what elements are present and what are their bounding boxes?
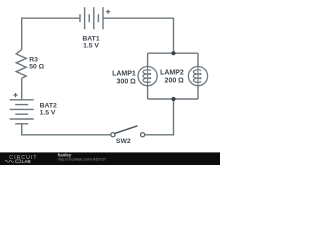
footer banner — [0, 152, 220, 165]
switch SW2 — [111, 126, 145, 137]
lamp LAMP1 — [138, 67, 157, 86]
wire lamp1 branch bottom — [147, 86, 149, 99]
wire bottom-right: switch to lamp bottom node — [145, 99, 174, 135]
CircuitLab logo waveform — [5, 161, 14, 163]
battery BAT1 — [80, 7, 103, 29]
svg-text:300 Ω: 300 Ω — [117, 78, 137, 85]
svg-text:LAMP2: LAMP2 — [160, 70, 184, 77]
svg-text:200 Ω: 200 Ω — [165, 77, 185, 84]
wire left rail: R3 bottom to BAT2 top — [21, 78, 23, 100]
lamp LAMP2 — [188, 67, 207, 86]
svg-text:BAT1: BAT1 — [82, 36, 99, 43]
BAT1 plus polarity mark — [106, 10, 110, 14]
CircuitLab logo battery icon — [16, 160, 21, 163]
wire top-left: left rail top segment and top wire to BAT1 negative — [22, 18, 80, 49]
svg-text:http://circuitlab.com/c435737: http://circuitlab.com/c435737 — [58, 158, 106, 162]
wire lamp box bottom rail — [148, 98, 198, 100]
wire lamp box top rail — [148, 52, 198, 54]
svg-text:LAB: LAB — [22, 159, 31, 164]
node junction dot bottom of lamp pair — [171, 97, 175, 101]
node junction dot top of lamp pair — [171, 51, 175, 55]
wire lamp2 branch bottom — [197, 86, 199, 99]
svg-text:1.5 V: 1.5 V — [40, 109, 56, 116]
svg-text:R3: R3 — [29, 57, 38, 64]
BAT2 plus polarity mark — [13, 93, 17, 97]
wire lamp1 branch top — [147, 53, 149, 66]
battery BAT2 — [10, 100, 34, 124]
resistor R3 — [16, 50, 26, 79]
wire lamp2 branch top — [197, 53, 199, 66]
wire top-right: BAT1 positive to right corner, down to lamp node — [103, 18, 174, 53]
svg-text:50 Ω: 50 Ω — [29, 64, 44, 71]
wire bottom-left: BAT2 negative down and right to switch — [22, 124, 111, 135]
svg-text:SW2: SW2 — [116, 138, 131, 145]
svg-text:1.5 V: 1.5 V — [83, 43, 99, 50]
svg-text:LAMP1: LAMP1 — [112, 70, 136, 77]
